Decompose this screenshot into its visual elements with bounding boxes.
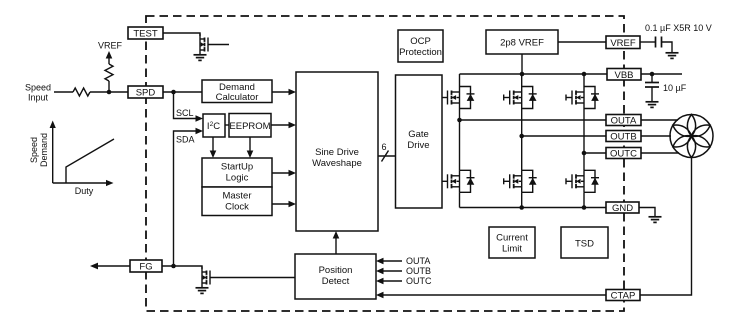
svg-text:Drive: Drive: [407, 140, 429, 151]
block: EEPROM: [229, 114, 271, 138]
svg-text:Demand: Demand: [39, 133, 49, 167]
node: VBB rail / 2p8 VREF: [520, 72, 525, 77]
svg-text:6: 6: [381, 142, 386, 152]
wire: resistor to VREF arrow: [108, 57, 110, 64]
capacitor C2 10uF: [651, 74, 653, 83]
wire: Position Detect up to Sine Drive: [335, 238, 337, 255]
transistor Q1 (TEST pull-down FET): [200, 34, 208, 56]
node: ground rail / phase C leg: [582, 205, 587, 210]
pin box: CTAP: [606, 290, 640, 301]
svg-text:Calculator: Calculator: [216, 92, 259, 103]
pin box: FG: [130, 260, 162, 272]
wire: resistor to SPD: [90, 91, 128, 93]
wire: Master Clock to Sine Drive: [272, 203, 290, 205]
block: Current Limit: [489, 227, 535, 258]
node: VBB rail / phase C: [582, 72, 587, 77]
block: 2p8 VREF: [486, 30, 558, 54]
bridge half-bridge B verticals: [521, 74, 523, 87]
transistor Q2 (FG open-drain FET): [202, 267, 210, 289]
pin box: GND: [606, 202, 639, 213]
pin box: VREF: [606, 36, 640, 49]
resistor (VREF pull-up, vertical): [105, 64, 113, 81]
node: SPD output: [171, 90, 176, 95]
svg-text:0.1 µF X5R 10 V: 0.1 µF X5R 10 V: [645, 23, 712, 33]
wire: StartUp Logic to Sine Drive: [272, 172, 290, 174]
block: Gate Drive: [396, 75, 443, 208]
svg-text:Duty: Duty: [75, 186, 94, 196]
wire: FG box to Q2: [162, 266, 202, 269]
svg-text:OUTA: OUTA: [611, 116, 637, 127]
arrow: Position Detect into Sine Drive: [333, 231, 340, 239]
svg-text:Detect: Detect: [322, 276, 350, 287]
graph curve: [66, 139, 114, 183]
svg-text:Current: Current: [496, 233, 528, 244]
svg-text:OUTC: OUTC: [406, 276, 432, 286]
svg-text:Protection: Protection: [399, 47, 442, 58]
wire: Q1 gate lead stub: [208, 44, 229, 46]
svg-text:TSD: TSD: [575, 239, 594, 250]
svg-text:OCP: OCP: [410, 36, 431, 47]
bus slash: [382, 151, 389, 162]
wire: CTAP feedback from motor to Position Detect: [383, 158, 692, 296]
svg-text:Speed: Speed: [29, 137, 39, 163]
node: phase C: [582, 151, 587, 156]
resistor (speed input series): [73, 88, 90, 96]
svg-text:OUTA: OUTA: [406, 256, 430, 266]
svg-text:GND: GND: [612, 203, 633, 214]
wire: phase A rail: [460, 119, 609, 121]
transistor QAL (phase A low side): [442, 170, 475, 192]
arrow: OUTA into Position Detect: [376, 258, 384, 265]
svg-text:EEPROM: EEPROM: [229, 121, 270, 132]
pin box: OUTA: [606, 115, 641, 126]
arrow: CTAP into Position Detect: [376, 292, 384, 299]
svg-text:OUTB: OUTB: [610, 132, 636, 143]
arrow: EEPROM into Sine Drive: [289, 122, 297, 129]
wire: Q2 gate lead to Position Detect: [210, 277, 295, 279]
svg-text:Master: Master: [222, 191, 251, 202]
arrow: SCL into I2C: [196, 115, 204, 122]
wire: VREF pin to capacitor: [640, 41, 655, 43]
block: Master Clock: [202, 187, 272, 216]
ground (VBB capacitor): [646, 102, 659, 108]
node: FG: [171, 264, 176, 269]
node: VBB capacitor: [650, 72, 655, 77]
svg-text:StartUp: StartUp: [221, 162, 253, 173]
arrow: Demand Calculator into Sine Drive: [289, 89, 297, 96]
pin box: OUTC: [606, 148, 641, 159]
svg-text:OUTC: OUTC: [610, 149, 637, 160]
wire: VBB pin to supply: [641, 73, 682, 75]
arrow: StartUp into Sine Drive: [289, 170, 297, 177]
wire: OUTB pin to motor: [640, 135, 671, 137]
wire: OUTA stub into Position Detect: [383, 260, 402, 262]
wire: TEST to Q1 gate: [163, 33, 200, 36]
svg-text:Clock: Clock: [225, 202, 249, 213]
svg-text:Speed: Speed: [25, 83, 51, 93]
ground (VREF capacitor): [666, 53, 679, 59]
wire: OUTC pin to motor: [640, 152, 679, 154]
node: phase A: [457, 118, 462, 123]
pin box: TEST: [128, 27, 163, 39]
wire: FG arrow line: [97, 265, 130, 267]
wire: speed input line: [54, 91, 73, 93]
svg-text:Waveshape: Waveshape: [312, 158, 362, 169]
ground (Q2 source): [196, 288, 209, 294]
wire: 2p8 VREF down to VBB rail: [521, 54, 523, 74]
transistor QBL (phase B low side): [504, 170, 537, 192]
svg-text:I2C: I2C: [207, 121, 220, 132]
block: I2C: [203, 114, 225, 137]
bridge half-bridge C verticals: [583, 74, 585, 87]
block: Position Detect: [295, 254, 376, 299]
wire: I2C to EEPROM link: [225, 124, 229, 126]
wire: phase C rail: [584, 152, 608, 154]
svg-text:Input: Input: [28, 93, 49, 103]
node: phase B: [519, 134, 524, 139]
wire: capacitor to ground: [662, 42, 673, 52]
transistor QBH (phase B high side): [504, 87, 537, 109]
arrow: VREF up: [106, 51, 113, 59]
bridge half-bridge A verticals: [459, 74, 461, 87]
svg-text:FG: FG: [139, 262, 152, 273]
wire: OUTA pin to motor: [640, 119, 678, 121]
pin box: SPD: [128, 86, 163, 98]
transistor QCH (phase C high side): [566, 87, 599, 109]
arrowheads: [50, 51, 384, 298]
arrow: Master Clock into Sine Drive: [289, 201, 297, 208]
svg-text:Gate: Gate: [408, 129, 429, 140]
graph x-axis: [53, 182, 108, 184]
wire: 2p8 VREF to VREF pin: [558, 41, 606, 43]
wire: Demand Calculator to Sine Drive: [272, 91, 290, 93]
svg-text:Limit: Limit: [502, 244, 522, 255]
wire: bottom ground rail: [460, 207, 607, 209]
wire: SPD junction down to SCL branch: [174, 92, 198, 119]
boxes: [128, 27, 641, 301]
svg-text:2p8 VREF: 2p8 VREF: [500, 38, 544, 49]
svg-text:VREF: VREF: [98, 41, 123, 51]
wire: Sine Drive to Gate Drive bus: [378, 155, 396, 157]
wire: I2C down to StartUp Logic: [212, 137, 214, 153]
ground (GND pin): [649, 217, 662, 223]
arrow: OUTB into Position Detect: [376, 268, 384, 275]
arrow: FG out: [90, 263, 98, 270]
motor M1 (fan): [670, 115, 713, 158]
arrow: EEPROM into StartUp Logic: [247, 151, 254, 159]
wire: resistor to junction: [108, 81, 110, 92]
capacitor C1 0.1uF plates: [655, 37, 657, 48]
svg-text:VREF: VREF: [610, 38, 636, 49]
svg-text:SDA: SDA: [176, 135, 195, 145]
wire: EEPROM down to StartUp Logic: [249, 137, 251, 153]
svg-text:Sine Drive: Sine Drive: [315, 147, 359, 158]
svg-text:SCL: SCL: [176, 108, 194, 118]
ground (Q1 source): [194, 55, 207, 61]
block: StartUp Logic: [202, 158, 272, 187]
pin box: VBB: [607, 69, 641, 81]
transistor QAH (phase A high side): [442, 87, 475, 109]
arrow: I2C into StartUp Logic: [210, 151, 217, 159]
svg-text:VBB: VBB: [614, 70, 633, 81]
svg-text:Logic: Logic: [226, 173, 249, 184]
wire: OUTB stub into Position Detect: [383, 270, 402, 272]
svg-text:TEST: TEST: [133, 29, 157, 40]
wire: OUTC stub into Position Detect: [383, 280, 402, 282]
wire: top VBB rail: [460, 73, 608, 75]
pin box: OUTB: [606, 131, 641, 142]
transistor QCL (phase C low side): [566, 170, 599, 192]
wire: SPD to Demand Calculator: [163, 91, 202, 93]
block: OCP Protection: [398, 30, 443, 62]
arrow: graph x-axis: [106, 180, 114, 186]
wire: phase B rail: [522, 135, 608, 137]
graph y-axis: [52, 126, 54, 183]
block: Sine Drive Waveshape: [296, 72, 378, 231]
block: TSD: [561, 227, 608, 258]
arrow: graph y-axis: [50, 121, 56, 129]
svg-text:CTAP: CTAP: [611, 291, 636, 302]
arrow: OUTC into Position Detect: [376, 278, 384, 285]
svg-text:SPD: SPD: [136, 88, 156, 99]
block: Demand Calculator: [202, 80, 272, 103]
svg-text:10 µF: 10 µF: [663, 83, 687, 93]
svg-text:OUTB: OUTB: [406, 266, 431, 276]
node: ground rail / phase B leg: [519, 205, 524, 210]
arrow: SDA into I2C: [196, 128, 204, 135]
svg-text:Position: Position: [319, 265, 353, 276]
node: speed input / VREF resistor: [107, 90, 112, 95]
chip boundary (dashed): [146, 16, 624, 311]
wire: GND pin to ground: [639, 208, 655, 217]
wire: SDA branch down to FG junction: [174, 131, 198, 266]
wire: EEPROM to Sine Drive: [271, 124, 290, 126]
